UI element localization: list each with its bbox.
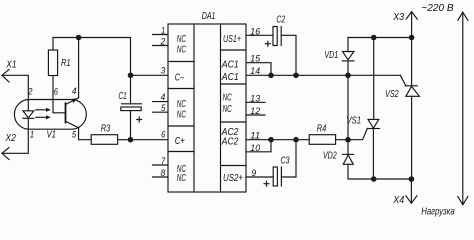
svg-text:1: 1 [30,130,34,141]
capacitor C1 bottom plate (polarized box) [121,107,141,111]
DA1 pin 14 wire (AC1 rail) [246,74,400,76]
svg-text:14: 14 [250,66,260,77]
svg-text:15: 15 [250,53,260,64]
node C2 riser junction [293,73,299,79]
light arrow lower [36,116,49,118]
VD2 cathode bar [343,153,354,155]
svg-text:VD2: VD2 [323,150,337,161]
phototransistor collector diagonal [66,98,79,105]
LED cathode bar [23,117,34,119]
terminal X2 [2,148,9,160]
node VS1 bottom junction [371,176,377,182]
svg-text:5: 5 [161,103,166,114]
LED inside V1 (wire pin2 to pin1) [27,100,29,130]
svg-text:VD1: VD1 [324,50,338,61]
terminal X3 [406,12,417,38]
C1 plus sign [137,117,142,122]
wire rail corner down to C- node [130,38,132,76]
wire node to DA1 pin 3 [131,74,169,76]
capacitor C2 right plate [280,27,282,46]
DA1 pin 5 stub [153,111,169,113]
svg-text:9: 9 [251,168,256,179]
DA1 right column cell dividers [221,50,247,166]
DA1 pin 8 stub [153,176,169,178]
svg-text:NC: NC [223,104,233,115]
svg-text:C1: C1 [119,91,127,102]
node pin10 junction [268,137,274,143]
svg-text:11: 11 [250,130,260,141]
svg-text:2: 2 [160,37,166,48]
wire VS2 cathode to top rail [411,38,413,86]
phototransistor emitter diagonal [66,121,79,128]
resistor R3 [91,135,117,145]
svg-text:~220 В: ~220 В [421,3,454,14]
resistor R1 [48,50,57,76]
wire C2 to riser [281,35,296,75]
svg-text:7: 7 [161,156,166,167]
DA1 left column cell dividers [168,62,194,152]
node VS1 top junction [371,35,377,41]
light arrow upper [36,109,49,111]
svg-text:3: 3 [161,66,166,77]
node pin15 junction [268,73,274,79]
node VS2 bottom junction [409,176,415,182]
wire VD2 to bottom rail [348,164,411,179]
wire R1 top to rail [52,38,54,51]
node X3 junction [409,35,415,41]
thyristor VS1 anode wire from top rail [373,38,375,120]
svg-text:12: 12 [250,106,260,117]
VS2 gate wire [400,75,406,86]
capacitor C1 wire lower [130,111,132,140]
thyristor VS2 [406,86,420,96]
LED triangle [23,111,34,118]
svg-text:13: 13 [250,93,260,104]
svg-text:4: 4 [161,92,166,103]
svg-text:X1: X1 [5,59,16,70]
node rail / pin4 junction [76,35,82,41]
svg-text:C+: C+ [175,136,185,147]
svg-text:Нагрузка: Нагрузка [421,207,455,218]
DA1 pin 16 wire to C2 [246,34,273,36]
diode VD2 [347,140,349,155]
wire X1 to optocoupler pin 2 [2,75,28,99]
wire top rail [348,37,412,39]
DA1 pin 13 stub [246,101,265,103]
wire VS1 cathode to bottom rail [372,129,374,180]
wire VD1 node down to VD2 node [347,75,349,139]
node C3 riser junction [293,137,299,143]
DA1 pin 11 wire (AC2 rail) [246,139,309,141]
wire C3 to riser [281,140,296,177]
svg-text:C2: C2 [276,15,285,26]
svg-text:V1: V1 [47,130,57,141]
svg-text:16: 16 [250,26,260,37]
phototransistor collector arrowhead [71,98,77,103]
IC DA1 outline [168,24,246,192]
terminal X4 [406,179,417,203]
DA1 pin 9 wire to C3 [246,176,273,178]
svg-text:6: 6 [54,87,59,98]
capacitor C1 wire upper [130,75,132,104]
svg-text:C–: C– [175,73,185,84]
diode VD1 [347,38,349,52]
wire pin4 collector riser [78,38,80,98]
wire R4 to VD node [336,139,348,141]
svg-text:US2+: US2+ [223,173,243,184]
svg-text:6: 6 [161,130,166,141]
VS2 cathode bar [405,85,417,87]
node VD2 junction [345,137,351,143]
DA1 pin 10 wire riser [246,140,271,152]
DA1 pin 1 stub [153,34,169,36]
thyristor VS2 anode wire from bottom rail [411,96,413,179]
svg-text:5: 5 [72,130,77,141]
svg-text:NC: NC [177,44,187,55]
thyristor VS1 [368,119,379,128]
capacitor C2 left plate (polarized box) [273,27,277,46]
VS1 cathode bar [367,128,379,130]
svg-text:X3: X3 [392,12,404,23]
svg-text:NC: NC [177,110,187,121]
node C- junction [128,73,134,79]
svg-text:10: 10 [250,143,260,154]
svg-text:R4: R4 [317,124,327,135]
svg-text:AC1: AC1 [221,59,239,70]
svg-text:DA1: DA1 [202,11,216,22]
svg-text:8: 8 [161,168,166,179]
terminal X1 [2,69,9,82]
svg-text:C3: C3 [281,156,290,167]
VD1 cathode bar [342,60,354,62]
capacitor C3 right plate [280,167,282,186]
svg-text:VS2: VS2 [385,89,399,100]
optocoupler V1 body [14,100,86,130]
C2 plus sign [265,41,270,46]
node VD1 junction [345,73,351,79]
capacitor C1 top plate [122,103,142,105]
svg-text:NC: NC [177,173,187,184]
svg-text:AC1: AC1 [221,72,239,83]
wire top-left rail [53,37,131,39]
svg-text:AC2: AC2 [221,137,239,148]
svg-text:R3: R3 [101,123,111,134]
svg-text:X4: X4 [392,195,404,206]
svg-text:NC: NC [223,92,233,103]
svg-text:NC: NC [177,99,187,110]
wire emitter to R3 [79,128,92,140]
svg-text:4: 4 [72,86,77,97]
resistor R4 [309,135,335,145]
svg-text:R1: R1 [61,58,71,69]
DA1 pin 15 wire riser [246,63,271,76]
wire node to DA1 pin 6 [131,139,169,141]
wire VD1 to AC1 rail [347,61,349,75]
svg-text:VS1: VS1 [346,116,361,127]
DA1 pin 12 stub [246,114,265,116]
VS1 gate wire [348,129,367,140]
wire R3 to C+ node [118,139,131,141]
phototransistor base bar [65,103,67,122]
C3 plus sign [264,181,269,186]
svg-text:US1+: US1+ [223,34,241,45]
DA1 pin 4 stub [153,101,169,103]
svg-text:X2: X2 [5,133,17,144]
capacitor C3 left plate (polarized box) [273,167,277,186]
phototransistor base lead from pin 6 [53,76,65,113]
DA1 pin 2 stub [153,45,169,47]
DA1 inner column lines [194,24,221,192]
DA1 pin 7 stub [153,164,169,166]
node C+ junction [128,137,134,143]
svg-text:2: 2 [27,87,33,98]
mains line with arrows [462,12,464,205]
svg-text:1: 1 [161,26,165,37]
wire X2 to optocoupler pin 1 [2,129,28,153]
